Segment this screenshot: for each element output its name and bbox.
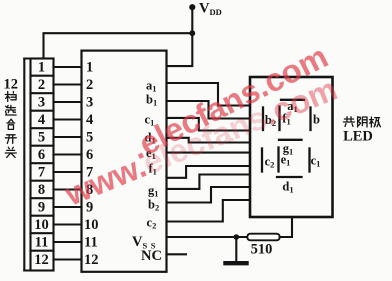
svg-text:NC: NC [141,248,162,264]
svg-text:2: 2 [86,77,93,93]
junction node VDD bus [189,30,195,36]
wire switch cell 11 to IC pin 11 [54,241,82,243]
svg-text:c1: c1 [311,154,321,169]
svg-text:5: 5 [86,130,93,146]
switch cell divider 4-5 [31,127,54,129]
wire VDD bus from switch top to VDD drop [44,33,193,58]
left caption char tai [7,119,15,129]
svg-text:9: 9 [38,200,45,216]
svg-text:12: 12 [34,252,49,268]
LED segment d1 bar [277,176,302,178]
LED segment bar left of b2 [262,108,264,131]
LED segment e1 bar [277,148,279,172]
LED segment a1 bar [281,99,304,101]
svg-text:5: 5 [38,130,45,146]
svg-text:11: 11 [84,235,98,251]
svg-text:12: 12 [3,76,18,92]
wire output b2 from IC to LED display [167,187,251,203]
wire resistor to LED common cathode [280,217,292,237]
VDD terminal dot [189,4,195,10]
switch common rail [23,59,25,271]
svg-text:11: 11 [35,235,49,251]
svg-text:12: 12 [84,252,99,268]
svg-text:a1: a1 [146,79,157,94]
wire VDD vertical drop to IC VDD pin [167,7,193,66]
wire output c1 from IC to LED display [167,118,251,131]
wire switch cell 3 to IC pin 3 [54,101,82,103]
wire switch cell 1 to IC pin 1 [54,66,82,68]
wire switch cell 12 to IC pin 12 [54,258,82,260]
LED segment b bar [309,108,311,131]
svg-text:c2: c2 [265,155,275,170]
svg-text:b1: b1 [146,93,157,108]
wire switch cell 7 to IC pin 7 [54,171,82,173]
left caption char kai [5,135,16,144]
svg-text:6: 6 [38,147,45,163]
wire switch cell 2 to IC pin 2 [54,83,82,85]
ground stem [235,237,237,262]
svg-text:6: 6 [86,147,93,163]
svg-text:10: 10 [34,217,49,233]
junction node VSS resistor ground [234,234,240,240]
left caption char dang [5,92,16,102]
LED segment bar left of c2 [261,149,263,172]
wire switch cell 8 to IC pin 8 [54,188,82,190]
switch cell divider 9-10 [31,215,54,217]
wire switch cell 10 to IC pin 10 [54,223,82,225]
wire VSS from IC to ground node [167,236,248,238]
switch cell divider 11-12 [31,250,54,252]
svg-text:2: 2 [38,77,45,93]
wire switch cell 9 to IC pin 9 [54,206,82,208]
svg-text:LED: LED [343,129,373,145]
svg-text:d1: d1 [282,180,293,195]
switch cell divider 3-4 [31,110,54,112]
right caption char gong [344,117,355,127]
svg-text:7: 7 [38,165,45,181]
switch S1 contact column outline [31,59,54,271]
LED segment f1 bar [278,107,280,131]
svg-text:c2: c2 [147,216,157,231]
switch cell divider 8-9 [31,197,54,199]
left caption char xuan [6,105,17,115]
svg-text:4: 4 [86,112,93,128]
LED display box [250,77,333,217]
svg-text:g1: g1 [148,184,159,199]
svg-text:3: 3 [86,95,93,111]
switch cell divider 6-7 [31,162,54,164]
switch cell divider 1-2 [31,75,54,77]
switch cell divider 2-3 [31,92,54,94]
wire output a1 from IC to LED segment a1 [167,83,251,106]
wire output e1 from IC to LED display [167,152,251,154]
LED segment g1 bar [279,139,302,141]
svg-text:510: 510 [251,242,273,258]
right caption char ji [370,117,381,127]
svg-text:1: 1 [86,60,93,76]
wire switch cell 5 to IC pin 5 [54,136,82,138]
wire output d1 from IC to LED display [167,138,251,143]
svg-text:3: 3 [38,95,45,111]
right caption char yin [358,117,367,127]
wire output f1 from IC to LED display [167,166,251,178]
switch bottom edge wire [24,269,53,271]
svg-text:VDD: VDD [199,1,222,18]
switch cell divider 7-8 [31,180,54,182]
IC U1 body [82,51,167,272]
left caption char guan [5,147,16,157]
wire output b1 from IC to LED segment b [167,101,251,119]
svg-text:b2: b2 [148,198,159,213]
wire NC stub [167,253,187,255]
svg-text:4: 4 [38,112,45,128]
ground bar [226,261,247,265]
wire switch cell 4 to IC pin 4 [54,118,82,120]
svg-text:www.elecfans.com: www.elecfans.com [59,71,342,213]
wire switch cell 6 to IC pin 6 [54,153,82,155]
LED segment c1 bar [308,149,310,172]
resistor R1 510 body [247,234,279,241]
svg-text:10: 10 [84,217,99,233]
svg-text:1: 1 [38,60,45,76]
wire output c2 from IC to LED display [167,200,251,222]
switch cell divider 5-6 [31,145,54,147]
wire output g1 from IC to LED display [167,175,251,189]
svg-text:8: 8 [38,182,45,198]
switch top edge wire [24,57,53,59]
switch cell divider 10-11 [31,232,54,234]
